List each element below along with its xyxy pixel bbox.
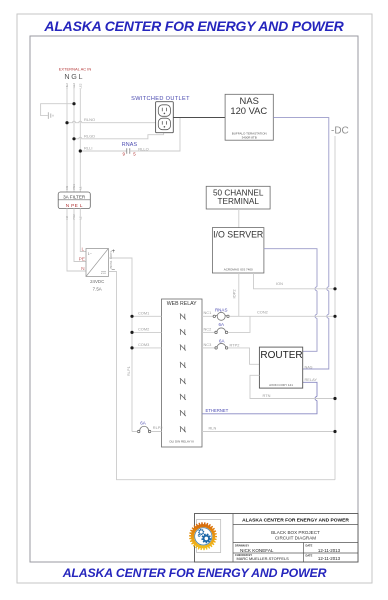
wire L bus vertical with hops <box>79 89 81 192</box>
svg-text:RNAS: RNAS <box>215 307 228 312</box>
relay contact K2 <box>180 329 186 335</box>
svg-text:5: 5 <box>133 151 136 156</box>
svg-text:WEB RELAY: WEB RELAY <box>167 301 197 307</box>
svg-text:RELAY: RELAY <box>305 377 318 382</box>
svg-text:NC3: NC3 <box>204 342 212 347</box>
svg-text:RLLI: RLLI <box>84 146 92 151</box>
border frame inner <box>30 36 358 562</box>
svg-text:3400R 8TB: 3400R 8TB <box>242 135 257 139</box>
node G terminal label <box>71 72 77 89</box>
wire RLLI <box>79 146 127 153</box>
pin label NAS <box>305 364 313 369</box>
wire filter to PSU N <box>67 209 86 271</box>
svg-text:LE2: LE2 <box>78 83 82 88</box>
svg-text:CON2: CON2 <box>257 309 268 314</box>
svg-text:RLP2: RLP2 <box>153 425 163 430</box>
wire RLN to -DC bus <box>202 426 337 434</box>
NAS box 120VAC Buffalo Terastation <box>225 94 273 140</box>
svg-text:TERMINAL: TERMINAL <box>217 197 259 206</box>
svg-text:BCN1: BCN1 <box>109 260 113 268</box>
node L terminal label <box>78 72 82 89</box>
svg-text:24VDC: 24VDC <box>90 279 104 284</box>
svg-text:7.5A: 7.5A <box>93 287 102 292</box>
svg-text:6A: 6A <box>218 322 224 327</box>
svg-text:1~: 1~ <box>88 252 92 256</box>
relay contact K3 <box>180 345 186 351</box>
wire ground branch <box>41 104 74 116</box>
wire G bus vertical with hops <box>73 89 75 192</box>
svg-text:NC2: NC2 <box>204 326 212 331</box>
node junction G-ground <box>72 102 75 105</box>
relay contact RNAS pins 9 5 <box>122 142 138 156</box>
svg-text:BLACK BOX PROJECT: BLACK BOX PROJECT <box>271 530 320 535</box>
svg-text:RTP2: RTP2 <box>230 342 240 347</box>
switched outlet J1 <box>156 102 174 133</box>
svg-text:ALASKA CENTER FOR ENERGY AND P: ALASKA CENTER FOR ENERGY AND POWER <box>43 18 344 34</box>
wire COM3 <box>130 342 161 349</box>
50 channel terminal box <box>206 186 270 209</box>
title block frame <box>195 514 359 563</box>
svg-text:COM3: COM3 <box>138 342 149 347</box>
web relay box DLI DIN RELAY III <box>162 299 203 447</box>
svg-text:AXON CODY 141: AXON CODY 141 <box>269 383 293 387</box>
relay contact K8 <box>180 426 186 432</box>
svg-text:G: G <box>71 72 77 81</box>
wire NAS network to router with hops <box>273 118 329 369</box>
svg-text:RNAS: RNAS <box>122 142 138 148</box>
wire filter to PSU L <box>80 209 86 252</box>
svg-text:MARC MUELLER-STOFFELS: MARC MUELLER-STOFFELS <box>237 556 290 561</box>
title block project name <box>271 530 320 541</box>
wire -DC bus vertical <box>334 136 336 480</box>
svg-text:ETHERNET: ETHERNET <box>206 408 229 413</box>
svg-text:6A: 6A <box>140 420 146 425</box>
svg-text:N PE L: N PE L <box>66 203 83 209</box>
svg-text:RLN: RLN <box>209 426 217 431</box>
svg-text:CIRCUIT DIAGRAM: CIRCUIT DIAGRAM <box>275 536 316 541</box>
svg-text:I/O SERVER: I/O SERVER <box>213 230 263 240</box>
ACEP logo gear <box>189 522 217 550</box>
svg-text:ROUTER: ROUTER <box>260 350 302 361</box>
relay contact K6 <box>180 394 186 400</box>
title block checked by row <box>235 553 341 561</box>
wire N bus vertical <box>66 89 68 192</box>
svg-text:GE2: GE2 <box>72 82 76 88</box>
wire ETHERNET relay to router <box>202 382 317 414</box>
svg-text:SWITCHED OUTLET: SWITCHED OUTLET <box>131 96 190 102</box>
router U3 Axon Cody 141 <box>259 347 302 388</box>
relay contact K7 <box>180 410 186 416</box>
wire CON2 to -DC bus with junctions <box>229 309 336 318</box>
wire RLNO <box>65 117 155 124</box>
ground symbol <box>48 112 53 119</box>
svg-text:N1: N1 <box>65 185 69 189</box>
power supply PS1 24VDC 7.5A <box>86 248 115 292</box>
wire COM2 <box>130 327 161 334</box>
svg-text:RTN: RTN <box>263 393 271 398</box>
svg-text:NICK KONEFAL: NICK KONEFAL <box>240 548 274 553</box>
svg-text:COM2: COM2 <box>138 327 149 332</box>
svg-text:L: L <box>79 72 83 81</box>
wire PSU minus BCN <box>108 272 335 480</box>
svg-text:L1: L1 <box>78 186 82 190</box>
wire COM1 <box>130 311 161 318</box>
svg-text:COM1: COM1 <box>138 311 149 316</box>
wire RLGD <box>72 133 163 141</box>
wire filter to PSU PE <box>74 209 86 262</box>
svg-text:12-11-2013: 12-11-2013 <box>318 548 341 553</box>
wire NC2 to CON2 <box>228 316 250 332</box>
PSU input pin labels L PE N <box>79 247 85 272</box>
svg-text:120 VAC: 120 VAC <box>230 105 267 116</box>
svg-text:L: L <box>81 247 84 253</box>
svg-text:PE1: PE1 <box>72 184 76 190</box>
wire IO server network to router with hops <box>264 249 317 352</box>
IO server U2 Acromag <box>212 228 264 273</box>
label SWITCHED OUTLET <box>131 96 190 102</box>
svg-text:RLP1: RLP1 <box>126 366 131 376</box>
wire ION to -DC bus <box>254 273 337 290</box>
wire outlet to NAS <box>173 117 225 119</box>
wire RLP1 to fuse to relay box <box>132 431 162 433</box>
svg-text:N: N <box>64 72 69 81</box>
3A filter F1 <box>58 184 90 220</box>
svg-text:EXTERNAL AC IN: EXTERNAL AC IN <box>59 67 92 72</box>
wire terminal to IO server <box>238 209 240 228</box>
svg-text:6A: 6A <box>219 338 225 343</box>
svg-text:PE: PE <box>79 256 85 262</box>
svg-text:RLNO: RLNO <box>84 117 95 122</box>
title block drawn by row <box>235 543 341 553</box>
svg-text:12-11-2013: 12-11-2013 <box>318 556 341 561</box>
relay contact K4 <box>180 362 186 368</box>
title block company name <box>242 518 349 524</box>
svg-text:DATE: DATE <box>306 543 313 547</box>
logo plate <box>197 520 221 553</box>
node N terminal label <box>64 72 69 89</box>
wire RTP2 to router power <box>228 348 260 364</box>
net label -DC <box>331 126 349 137</box>
svg-text:ALASKA CENTER FOR ENERGY AND P: ALASKA CENTER FOR ENERGY AND POWER <box>62 566 327 580</box>
svg-text:ION: ION <box>276 281 283 286</box>
svg-text:NE2: NE2 <box>65 83 69 89</box>
wire RTN to -DC bus with hop <box>250 375 337 400</box>
fuse 6A on NC2 <box>202 326 228 333</box>
svg-text:NC1: NC1 <box>204 310 212 315</box>
fuse 6A RTP2 on NC3 <box>202 338 239 349</box>
wire IOP2 <box>231 273 238 316</box>
fuse 6A RLP2 <box>138 420 163 432</box>
svg-text:RLGD: RLGD <box>84 133 95 138</box>
svg-text:DATE: DATE <box>306 553 313 557</box>
svg-text:9: 9 <box>122 151 125 156</box>
svg-text:ALASKA CENTER FOR ENERGY AND P: ALASKA CENTER FOR ENERGY AND POWER <box>242 518 349 524</box>
svg-text:IOP2: IOP2 <box>231 289 236 299</box>
svg-text:DLI DIN RELAY III: DLI DIN RELAY III <box>169 440 194 444</box>
svg-text:3A FILTER: 3A FILTER <box>63 194 86 199</box>
relay contact K5 <box>180 378 186 384</box>
label EXTERNAL AC IN <box>59 67 92 72</box>
svg-text:DRAWN BY: DRAWN BY <box>235 543 249 547</box>
sheet title bottom <box>62 566 327 580</box>
relay contact K1 <box>180 314 186 320</box>
wire PSU plus RLP1 <box>108 258 132 432</box>
breaker RNAS 6A on NC1 <box>202 307 229 327</box>
svg-text:ACROMAG IOS 7400: ACROMAG IOS 7400 <box>224 267 253 271</box>
sheet title top <box>43 18 344 34</box>
wire RLLO <box>130 118 180 152</box>
pin label RELAY <box>305 377 318 382</box>
svg-text:-DC: -DC <box>331 126 349 137</box>
svg-text:NAS: NAS <box>305 364 313 369</box>
svg-text:N: N <box>81 266 85 272</box>
